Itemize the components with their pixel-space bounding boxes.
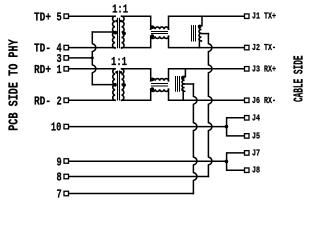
junction dot T1 secondary center: [122, 32, 126, 36]
choke L2 bottom out to J6: [169, 89, 245, 100]
phase dot choke L1 top: [151, 25, 155, 29]
pin pad 10: [64, 124, 69, 129]
svg-text:1:1: 1:1: [112, 3, 128, 16]
common-mode choke L1 bottom winding: [151, 36, 169, 38]
AT1 bottom leg to J2 wire: [198, 40, 200, 48]
common-mode choke L1 top winding: [151, 27, 169, 29]
svg-text:1: 1: [57, 63, 62, 77]
pin pad J6: [245, 98, 250, 103]
T1 center-tap wire: [92, 31, 115, 33]
svg-text:5: 5: [57, 10, 62, 24]
transformer T1 core: [118, 18, 120, 47]
pin pad 4: [64, 45, 69, 50]
T2 center-tap wire: [92, 84, 115, 86]
choke L1 bottom out to J2: [169, 36, 245, 47]
choke L1 top out to J1: [169, 16, 245, 29]
phase dot choke L2 bottom: [151, 87, 155, 91]
junction dot T1 primary center tap: [113, 31, 117, 35]
svg-text:8: 8: [57, 171, 62, 185]
wire pin5 to T1 primary top: [69, 15, 116, 17]
wire pin9 to J7/J8 junction: [69, 160, 227, 162]
pin pad J5: [245, 134, 250, 139]
svg-text:J7: J7: [252, 147, 260, 158]
pin pad 8: [64, 174, 69, 179]
J4/J5 bracket: [227, 118, 245, 136]
svg-text:1:1: 1:1: [111, 56, 127, 69]
pin pad 9: [64, 159, 69, 164]
pin pad 3: [64, 56, 69, 61]
svg-text:CABLE SIDE: CABLE SIDE: [292, 56, 307, 103]
pin pad J2: [245, 45, 250, 50]
svg-text:TD+: TD+: [34, 10, 51, 24]
choke L2 core: [152, 84, 168, 87]
T2 secondary to choke, top: [122, 69, 151, 81]
svg-text:10: 10: [51, 121, 61, 135]
wire pin2 to T2 primary bottom: [69, 99, 116, 101]
phase dot T1 secondary: [120, 20, 123, 23]
pin pad 1: [64, 67, 69, 72]
wire pin8 to bus B: [69, 176, 209, 178]
svg-text:PCB SIDE TO PHY: PCB SIDE TO PHY: [8, 39, 23, 131]
pin pad J3: [245, 67, 250, 72]
wire pin10 to J4/J5 junction: [69, 126, 227, 128]
wire pin1 to T2 primary top: [69, 68, 116, 70]
autotransformer AT2 drop from J3 wire: [184, 69, 186, 77]
junction dot T2 primary center tap: [113, 83, 117, 87]
junction dot T2 secondary center: [122, 83, 126, 87]
transformer T1 primary winding: [113, 16, 115, 48]
pin pad 5: [64, 14, 69, 19]
svg-text:9: 9: [57, 155, 62, 169]
choke L2 top out to J3: [169, 69, 245, 81]
autotransformer AT2 winding: [182, 77, 185, 92]
bus B vertical with hops: [208, 34, 212, 177]
svg-text:J3 RX+: J3 RX+: [252, 63, 276, 74]
T1 secondary to choke, bottom: [122, 36, 151, 47]
svg-text:J4: J4: [252, 112, 260, 123]
svg-text:2: 2: [57, 94, 62, 108]
svg-text:7: 7: [57, 188, 62, 202]
wire pin4 to T1 primary bottom: [69, 47, 116, 49]
svg-text:RD-: RD-: [34, 94, 51, 108]
autotransformer AT1 drop from J1 wire: [201, 16, 203, 26]
pin pad J4: [245, 116, 250, 121]
transformer T2 secondary winding: [122, 69, 124, 101]
junction dot J7/J8: [225, 160, 229, 164]
svg-text:J6 RX-: J6 RX-: [252, 95, 276, 106]
transformer T2 primary winding: [113, 69, 115, 101]
phase dot choke L2 top: [151, 78, 155, 82]
transformer T1 secondary winding: [122, 16, 124, 48]
AT2 center tap to bus A: [185, 83, 194, 85]
svg-text:J1 TX+: J1 TX+: [252, 11, 276, 22]
T2 secondary to choke, bottom: [122, 89, 151, 100]
AT2 bottom leg to J6 wire: [182, 90, 184, 100]
transformer T2 core: [118, 71, 120, 100]
pin pad J1: [245, 14, 250, 19]
J7/J8 bracket: [227, 153, 245, 170]
AT1 center tap to bus B: [201, 33, 208, 35]
pin pad 2: [64, 98, 69, 103]
svg-text:RD+: RD+: [34, 63, 51, 77]
bus A vertical with hops: [193, 84, 197, 194]
pin pad 7: [64, 191, 69, 196]
common-mode choke L2 top winding: [151, 79, 169, 81]
pin pad J8: [245, 168, 250, 173]
phase dot T2 primary: [115, 71, 118, 74]
junction dot J4/J5: [225, 125, 229, 129]
phase dot AT1: [198, 25, 202, 29]
wire pin7 to bus A: [69, 193, 194, 195]
svg-text:J8: J8: [252, 165, 260, 176]
phase dot choke L1 bottom: [151, 34, 155, 38]
phase dot AT2: [181, 76, 185, 80]
svg-text:J5: J5: [252, 130, 260, 141]
common-mode choke L2 bottom winding: [151, 89, 169, 91]
center-tap bus X (pin3) with hops over pin4 and pin1 wires: [92, 32, 96, 85]
autotransformer AT2 core: [176, 77, 180, 92]
pin pad J7: [245, 151, 250, 156]
choke L1 core: [152, 32, 168, 34]
junction dot pin3 bus: [91, 56, 94, 59]
wire pin3 to center-tap bus: [69, 57, 93, 59]
autotransformer AT1 core: [192, 26, 196, 41]
phase dot T2 secondary: [120, 71, 123, 74]
phase dot T1 primary: [115, 20, 118, 23]
svg-text:J2 TX-: J2 TX-: [252, 42, 276, 53]
autotransformer AT1 winding: [199, 26, 201, 41]
svg-text:TD-: TD-: [34, 42, 51, 56]
T1 secondary to choke, top: [122, 16, 151, 29]
